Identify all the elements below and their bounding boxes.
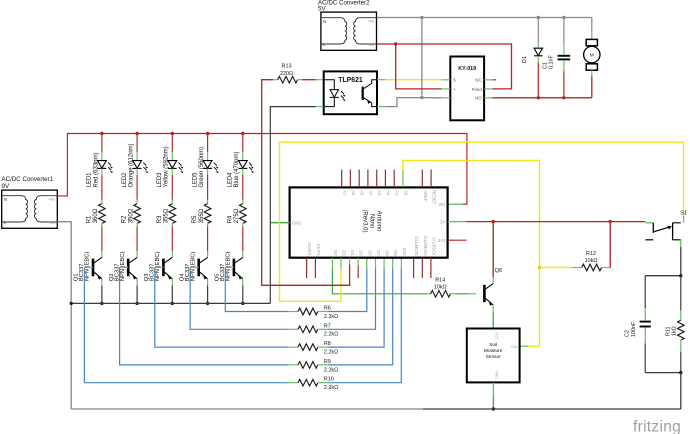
wire D3 pin stub (340, 258, 342, 269)
svg-text:NO: NO (475, 96, 482, 101)
svg-text:220Ω: 220Ω (280, 71, 293, 77)
Q6 emitter pin (492, 305, 494, 312)
svg-text:D11/MOSI: D11/MOSI (414, 236, 419, 255)
Q1 collector pin (101, 251, 103, 257)
svg-text:VIN: VIN (438, 202, 445, 207)
svg-text:Nano: Nano (369, 214, 375, 229)
svg-text:NPN (EBC): NPN (EBC) (190, 252, 196, 282)
LED3 cathode pin (171, 168, 173, 175)
svg-text:355Ω: 355Ω (164, 208, 170, 223)
node emitter bus junction Q1 (100, 302, 103, 305)
op-amp U4 Soil Moisture Sensor (467, 329, 520, 383)
resistor R7 2.2k&#937; (298, 326, 318, 333)
svg-text:Moisture: Moisture (484, 348, 503, 354)
wire transistor base to R8 (155, 267, 288, 347)
R5 bottom pin (207, 223, 209, 226)
svg-text:R2: R2 (122, 215, 128, 223)
resistor R10 2.2k&#937; (298, 379, 318, 386)
R9 left pin (288, 364, 298, 366)
wire Q3 emitter to common bus (171, 285, 173, 303)
R1 bottom pin (101, 223, 103, 226)
TLP621 pin 1 stub (316, 79, 324, 81)
svg-text:M: M (590, 53, 594, 59)
svg-text:LED5: LED5 (192, 172, 198, 188)
svg-text:2.2kΩ: 2.2kΩ (324, 367, 338, 373)
resistor R5 355&#937; (204, 204, 211, 224)
resistor R2 350&#937; (134, 204, 141, 224)
KY-019 right pin stub (484, 88, 492, 90)
LED2 anode pin (136, 152, 138, 161)
R7 left pin (288, 328, 298, 330)
svg-text:N: N (323, 19, 326, 24)
wire bottom ground bus (left) (71, 408, 423, 410)
wire R14 to Q6 base (456, 293, 469, 295)
svg-text:LED3: LED3 (157, 172, 163, 188)
svg-text:0,1nF: 0,1nF (549, 55, 555, 69)
svg-text:+Vo: +Vo (48, 198, 55, 202)
svg-text:A7: A7 (342, 190, 347, 196)
svg-text:GND: GND (494, 371, 498, 380)
svg-text:A5: A5 (360, 190, 365, 196)
svg-text:A0: A0 (403, 190, 408, 196)
wire stub pin A2 (384, 170, 386, 188)
TLP621 pin 3 stub (377, 106, 385, 108)
Arduino pin stub (375, 258, 377, 269)
LED3 emission arrows (179, 163, 182, 171)
wire stub unconnected pin (430, 258, 432, 278)
wire LED4 cathode to R4 (242, 175, 244, 200)
R9 right pin (318, 364, 328, 366)
node red rail / D1 (537, 96, 540, 99)
svg-text:S: S (453, 78, 456, 83)
svg-text:S1: S1 (680, 210, 687, 216)
wire SIG yellow to sensor (528, 345, 540, 347)
svg-text:D9: D9 (393, 250, 398, 256)
resistor R14 10k&#937; (431, 291, 451, 298)
svg-text:355Ω: 355Ω (199, 208, 205, 223)
svg-text:(Rev3.0): (Rev3.0) (362, 209, 368, 232)
svg-text:R7: R7 (324, 323, 331, 329)
wire stub unconnected pin (314, 258, 316, 278)
Q6 collector pin (492, 277, 494, 284)
Q4 base pin (190, 266, 199, 268)
wire stub pin A7 (341, 170, 343, 188)
wire A0 to soil sensor SIG and R12 (yellow) (403, 160, 540, 346)
svg-text:SIG: SIG (511, 345, 518, 349)
node grey bus / KY minus (420, 16, 423, 19)
node 5V / Q6 collector (492, 220, 495, 223)
transistor Q5 BC337 NPN (234, 257, 243, 279)
svg-text:C1: C1 (542, 62, 548, 69)
wire R10 to Arduino pin (328, 269, 402, 383)
svg-text:TLP621: TLP621 (338, 77, 363, 84)
LED LED1 Red (633nm) (98, 161, 107, 169)
svg-text:D4: D4 (350, 250, 355, 256)
svg-text:Yellow (592nm): Yellow (592nm) (164, 146, 170, 187)
LED LED5 Green (560nm) (203, 161, 212, 169)
wire C2/R11 top rail (645, 275, 681, 277)
svg-text:Sensor: Sensor (486, 354, 502, 360)
svg-text:VCC: VCC (494, 332, 498, 340)
svg-text:D12/MISO: D12/MISO (423, 236, 428, 256)
wire grey to TLP621 pin 3 (385, 98, 422, 107)
LED2 cathode pin (136, 168, 138, 175)
wire R7 to Arduino pin (328, 269, 376, 329)
LED2 emission arrows (143, 163, 146, 171)
R6 left pin (288, 311, 298, 313)
svg-text:D0/RX: D0/RX (307, 243, 312, 256)
svg-text:A3: A3 (377, 190, 382, 196)
svg-text:R10: R10 (324, 377, 334, 383)
svg-text:Orange (612nm): Orange (612nm) (129, 143, 135, 187)
transistor Q1 BC337 NPN (93, 257, 102, 279)
svg-text:D7: D7 (376, 250, 381, 256)
svg-text:C2: C2 (625, 330, 631, 337)
Q2 collector pin (136, 251, 138, 257)
wire R1 to Q1 collector (101, 227, 103, 251)
resistor R6 2.2k&#937; (298, 308, 318, 315)
wire stub pin A4 (367, 170, 369, 188)
node emitter bus junction Q3 (171, 302, 174, 305)
Q5 emitter pin (242, 279, 244, 286)
Q3 emitter pin (171, 279, 173, 286)
resistor R3 355&#937; (169, 204, 176, 224)
wire VIN green pin stub (448, 203, 463, 205)
transistor Q2 BC337 NPN (128, 257, 137, 279)
R4 bottom pin (242, 223, 244, 226)
wire grey to KY-019 minus pin (422, 97, 442, 99)
svg-text:9V: 9V (2, 183, 10, 190)
wire R12 up to 5V line (609, 222, 611, 268)
wire KY-019 NO to motor (red rail) (493, 97, 592, 99)
wire Q5 emitter to common bus (242, 285, 244, 303)
wire bus to LED3 anode (171, 134, 173, 153)
Q1 emitter pin (101, 279, 103, 286)
resistor R1 360&#937; (99, 204, 106, 224)
svg-text:GND: GND (292, 221, 301, 226)
node grey bus / C1 (562, 16, 565, 19)
wire stub pin A1 (393, 170, 395, 188)
svg-text:A4: A4 (368, 190, 373, 196)
R7 right pin (318, 328, 328, 330)
LED5 cathode pin (207, 168, 209, 175)
svg-text:3V3: 3V3 (438, 238, 446, 243)
svg-text:R4: R4 (227, 215, 233, 223)
wire bottom ground bus (right) (423, 408, 681, 410)
wire Q4 emitter to common bus (207, 285, 209, 303)
svg-text:350Ω: 350Ω (128, 208, 134, 223)
node emitter bus junction Q5 (241, 302, 244, 305)
wire stub pin A6 (349, 170, 351, 188)
svg-text:A6: A6 (351, 190, 356, 196)
op-amp U2 TLP621 optocoupler (324, 71, 377, 114)
Q3 collector pin (171, 251, 173, 257)
wire Arduino 5V to S1 (red) (466, 221, 645, 223)
wire TLP621 pin2 down to emitter bus / Arduino GND (270, 107, 315, 304)
wire stub pin D5 (357, 258, 359, 266)
node yellow junction A0/SIG/R12 (538, 266, 541, 269)
svg-text:AREF: AREF (423, 190, 428, 202)
Q2 emitter pin (136, 279, 138, 286)
svg-text:KY-019: KY-019 (458, 66, 476, 72)
resistor R12 10k&#937; (582, 264, 602, 271)
Arduino pin stub (392, 258, 394, 269)
AC/DC Converter2 (5V transformer) (321, 12, 377, 50)
svg-text:2.2kΩ: 2.2kΩ (324, 314, 338, 320)
wire R9 to Arduino pin (328, 269, 393, 365)
LED1 cathode pin (101, 168, 103, 175)
LED5 anode pin (207, 152, 209, 161)
wire stub pin RESET (430, 170, 432, 188)
svg-text:Soil: Soil (489, 342, 497, 348)
Q6 base pin (469, 293, 477, 295)
svg-text:fritzing: fritzing (633, 419, 681, 434)
svg-text:R9: R9 (324, 359, 331, 365)
svg-text:D6: D6 (367, 250, 372, 256)
svg-text:10kΩ: 10kΩ (434, 285, 447, 291)
svg-text:Red (633nm): Red (633nm) (93, 152, 99, 187)
motor M1 (584, 18, 600, 77)
wire stub pin AREF (421, 170, 423, 188)
svg-text:R13: R13 (282, 64, 292, 70)
Q4 collector pin (207, 251, 209, 257)
wire transistor base to R6 (225, 267, 287, 311)
node 5V / R12 (609, 220, 612, 223)
node LED4 supply junction (241, 132, 244, 135)
node LED2 supply junction (135, 132, 138, 135)
LED1 emission arrows (108, 163, 111, 171)
wire bus to LED4 anode (242, 134, 244, 153)
transistor Q4 BC337 NPN (199, 257, 208, 279)
KY-019 left pin stub (442, 97, 451, 99)
LED3 anode pin (171, 152, 173, 161)
node red rail / C1 (562, 96, 565, 99)
wire LED3 cathode to R3 (171, 175, 173, 200)
R4 top pin (242, 200, 244, 204)
LED1 anode pin (101, 152, 103, 161)
wire bus to LED5 anode (207, 134, 209, 153)
node -Vo junction (394, 42, 397, 45)
TLP621 pin 2 stub (316, 106, 324, 108)
svg-text:LED2: LED2 (122, 172, 128, 188)
svg-text:D1/TX: D1/TX (316, 244, 321, 256)
wire down to ground bus (680, 373, 682, 409)
node C2/R11 bottom junction (679, 371, 682, 374)
svg-text:R8: R8 (324, 341, 331, 347)
svg-text:5V: 5V (440, 220, 445, 225)
wire LED1 cathode to R1 (101, 175, 103, 200)
svg-text:R5: R5 (192, 215, 198, 223)
wire common emitter ground bus (71, 302, 270, 304)
LED LED2 Orange (612nm) (133, 161, 142, 169)
node LED5 supply junction (206, 132, 209, 135)
R10 right pin (318, 382, 328, 384)
LED LED4 Blue (470nm) (238, 161, 247, 169)
svg-text:RESET: RESET (432, 190, 437, 204)
node grey bus / D1 (537, 16, 540, 19)
resistor R13 220&#937; (278, 76, 298, 83)
R2 bottom pin (136, 223, 138, 226)
node LED3 supply junction (171, 132, 174, 135)
svg-text:Green (560nm): Green (560nm) (199, 147, 205, 188)
wire transistor base to R10 (84, 267, 287, 382)
svg-text:NPN (EBC): NPN (EBC) (226, 252, 232, 282)
S1 top right pin stub (683, 216, 685, 223)
svg-text:-Vo: -Vo (368, 43, 374, 47)
LED4 cathode pin (242, 168, 244, 175)
svg-text:NC: NC (475, 78, 481, 83)
svg-text:+Vo: +Vo (367, 20, 374, 24)
R3 bottom pin (171, 223, 173, 226)
svg-text:LED4: LED4 (228, 172, 234, 188)
wire D4 pin stub (349, 258, 351, 265)
svg-text:NPN (EBC): NPN (EBC) (85, 252, 91, 282)
svg-text:Feed: Feed (472, 87, 482, 92)
svg-text:NPN (EBC): NPN (EBC) (120, 252, 126, 282)
wire D4 to R13 (red) (262, 80, 350, 286)
wire TLP621 pin4 to KY-019 S (yellow) (385, 79, 441, 81)
svg-text:D8: D8 (385, 250, 390, 256)
capacitor C1 0,1nF (558, 18, 571, 98)
capacitor C2 100nF (640, 276, 651, 373)
R12 right pin (602, 267, 611, 269)
wire stub pin A3 (376, 170, 378, 188)
wire R5 to Q4 collector (207, 227, 209, 251)
Arduino pin stub (383, 258, 385, 269)
wire GND: converter1 -Vo down left edge to bottom ground bus (57, 222, 71, 409)
svg-text:AC/DC Converter1: AC/DC Converter1 (2, 176, 54, 183)
R14 left pin (427, 293, 431, 295)
wire -Vo loop to KY-019 Feed (396, 44, 512, 89)
R13 right pin (298, 79, 303, 81)
motor minus pin (591, 70, 593, 76)
svg-text:2.2kΩ: 2.2kΩ (324, 385, 338, 391)
wire Q6 emitter to sensor VCC (492, 312, 494, 329)
KY-019 left pin stub (442, 88, 451, 90)
svg-text:N: N (4, 197, 7, 202)
R8 left pin (288, 346, 298, 348)
wire stub unconnected pin (306, 258, 308, 278)
svg-text:R6: R6 (324, 306, 331, 312)
svg-text:NPN (EBC): NPN (EBC) (155, 252, 161, 282)
resistor R4 275&#937; (240, 204, 247, 224)
R14 right pin (450, 293, 456, 295)
wire grey bus down to KY-019 minus (421, 18, 423, 98)
Arduino pin stub (366, 258, 368, 269)
wire stub unconnected pin (413, 258, 415, 278)
svg-text:D2: D2 (333, 250, 338, 256)
wire LED5 cathode to R5 (207, 175, 209, 200)
Q1 base pin (84, 266, 93, 268)
svg-text:100nF: 100nF (631, 321, 637, 337)
node emitter bus / left ground junction (70, 302, 73, 305)
svg-text:2.2kΩ: 2.2kΩ (324, 350, 338, 356)
R10 left pin (288, 382, 298, 384)
svg-text:Q6: Q6 (495, 268, 502, 274)
node C2/R11 top junction (679, 274, 682, 277)
svg-text:AC/DC Converter2: AC/DC Converter2 (318, 0, 370, 7)
wire R13 to TLP621 anode (302, 79, 316, 81)
wire -Vo down to KY-019 plus (396, 44, 442, 89)
wire +9V: converter1 +Vo up to LED supply bus, right and down to Arduino VIN (57, 134, 467, 205)
svg-text:A1: A1 (395, 190, 400, 196)
svg-text:275Ω: 275Ω (234, 208, 240, 223)
svg-text:LED1: LED1 (87, 172, 93, 188)
svg-text:Arduino: Arduino (376, 211, 382, 232)
Q2 base pin (120, 266, 129, 268)
svg-text:R1: R1 (87, 215, 93, 223)
wire stub KY-019 NC (493, 79, 497, 81)
LED LED3 Yellow (592nm) (168, 161, 177, 169)
R2 top pin (136, 200, 138, 204)
Q5 collector pin (242, 251, 244, 257)
R6 right pin (318, 311, 328, 313)
op-amp U3 KY-019 relay module (450, 57, 484, 121)
wire transistor base to R7 (190, 267, 288, 329)
wire Q1 emitter to common bus (101, 285, 103, 303)
svg-text:D3: D3 (342, 250, 347, 256)
wire sensor GND to ground bus (492, 383, 494, 395)
AC/DC Converter1 (9V transformer) (2, 190, 58, 228)
KY-019 right pin stub (484, 79, 492, 81)
resistor R9 2.2k&#937; (298, 362, 318, 369)
svg-text:R14: R14 (435, 277, 445, 283)
wire R6 to Arduino pin (328, 269, 367, 312)
R5 top pin (207, 200, 209, 204)
Q3 base pin (155, 266, 164, 268)
wire 5V pin stub (448, 221, 467, 223)
wire Q2 emitter to common bus (136, 285, 138, 303)
svg-text:A2: A2 (386, 190, 391, 196)
wire stub pin 3V3 (448, 239, 467, 241)
svg-text:D13/SCK: D13/SCK (431, 238, 436, 256)
Q5 base pin (225, 266, 234, 268)
svg-text:10kΩ: 10kΩ (585, 258, 598, 264)
wire 5V to Q6 collector (492, 222, 494, 277)
svg-text:360Ω: 360Ω (93, 208, 99, 223)
Q4 emitter pin (207, 279, 209, 286)
svg-text:R12: R12 (586, 251, 596, 257)
wire A0 pin stub (402, 171, 404, 188)
svg-text:D1: D1 (522, 56, 528, 63)
wire bus to LED2 anode (136, 134, 138, 153)
LED4 emission arrows (249, 163, 252, 171)
wire S1 bottom to C2/R11 (680, 240, 682, 247)
R1 top pin (101, 200, 103, 204)
resistor R8 2.2k&#937; (298, 344, 318, 351)
resistor R11 1k&#937; (678, 276, 685, 373)
node emitter bus junction Q2 (135, 302, 138, 305)
svg-text:R3: R3 (157, 215, 163, 223)
LED5 emission arrows (214, 163, 217, 171)
wire bus to LED1 anode (101, 134, 103, 153)
diode D1 (534, 18, 542, 98)
Arduino pin stub (400, 258, 402, 269)
svg-text:2.2kΩ: 2.2kΩ (324, 332, 338, 338)
wire converter2 -Vo (red) (377, 43, 396, 45)
node ground bus / sensor GND (492, 407, 495, 410)
wire R3 to Q3 collector (171, 227, 173, 251)
TLP621 pin 4 stub (377, 79, 385, 81)
svg-text:D10: D10 (402, 248, 407, 256)
soil sensor SIG pin (520, 345, 528, 347)
wire R8 to Arduino pin (328, 269, 385, 347)
node emitter bus junction Q4 (206, 302, 209, 305)
wire LED2 cathode to R2 (136, 175, 138, 200)
wire converter2 +Vo bus (grey) (377, 17, 592, 19)
transistor Q3 BC337 NPN (163, 257, 172, 279)
wire S1 left pin stub (645, 222, 653, 224)
